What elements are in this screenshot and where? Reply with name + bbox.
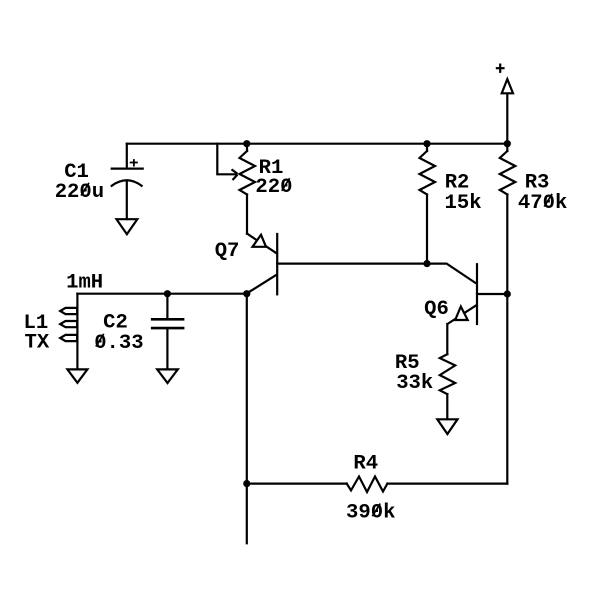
R1 wiper arm [217,144,237,180]
power supply + arrow [497,65,513,94]
wire L1 to ground [76,340,78,369]
resistor R3 [500,151,516,195]
wire node to Q6 collector [427,264,476,283]
junction dot C2 top [164,290,171,297]
svg-text:470k: 470k [518,192,567,215]
wire Q6 base to R3 line [477,293,507,295]
svg-text:390k: 390k [346,502,395,525]
wire left rail L1 C2 to Q7 collector [77,293,246,295]
slashed zero of 390k [373,504,380,515]
junction dot Q7 collector node [243,290,250,297]
wire Q7 base to node [277,263,427,265]
junction dot R2 top [423,140,430,147]
svg-text:R4: R4 [353,452,378,475]
wire C2 to ground [166,329,168,369]
wire top supply rail [127,143,508,145]
slashed zero of 220 [282,179,289,190]
junction dot R4 left [243,480,250,487]
wire R2 top lead [426,144,428,151]
resistor R4 [347,477,388,493]
ground below L1 [67,369,87,382]
wire C2 top lead [166,294,168,318]
wire R3 down right side [506,195,508,484]
wire R3 top lead [506,144,508,151]
capacitor C1 [112,160,143,186]
slashed zero of 0.33 [96,335,103,346]
wire R1 bottom lead [246,195,248,234]
svg-text:15k: 15k [445,192,482,215]
junction dot Q7 base / R2 / Q6 collector node [423,260,430,267]
svg-text:220: 220 [255,176,292,199]
wire collector node down [246,294,248,544]
wire Q6 emitter lead [446,324,448,354]
slashed zero of 220u [82,184,89,195]
wire R4 right [387,483,507,485]
svg-text:1mH: 1mH [66,271,103,294]
wire R2 bottom lead [426,195,428,264]
ground below C1 [117,219,138,234]
svg-text:Q6: Q6 [424,298,449,321]
resistor R2 [420,151,436,195]
junction dot R1 top [243,140,250,147]
transistor Q7 [247,234,277,295]
wire R5 bottom lead [446,394,448,419]
ground below C2 [157,369,178,383]
resistor R1 (variable) [240,151,256,195]
junction dot Q6 base on R3 line [504,290,511,297]
ground below R5 [437,419,457,434]
wire R1 top lead [246,144,248,151]
wire C1 top lead [126,144,128,168]
svg-text:220u: 220u [55,181,104,204]
wire R4 left [247,483,347,485]
svg-text:Q7: Q7 [215,240,240,263]
svg-text:TX: TX [25,331,50,354]
slashed zero of 470k [545,195,552,206]
junction dot R3 top [504,140,511,147]
resistor R5 [440,354,455,394]
svg-text:0.33: 0.33 [94,332,143,355]
inductor L1 [60,294,77,341]
capacitor C2 [152,319,183,328]
svg-text:33k: 33k [396,372,433,395]
transistor Q6 [448,264,477,324]
wire C1 to ground [126,181,128,220]
wire supply lead [506,93,508,143]
